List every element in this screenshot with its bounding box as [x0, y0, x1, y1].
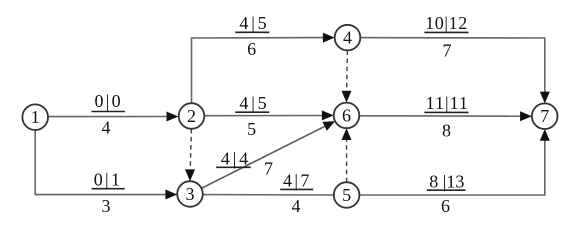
node 3	[177, 181, 203, 207]
wire 2-4	[192, 38, 324, 104]
label activity 1-2 value 0|0	[92, 91, 126, 138]
svg-text:6: 6	[441, 196, 450, 216]
arrowhead into node 6 from lower-left	[322, 121, 335, 131]
label activity 5-7 value 8|13	[427, 171, 466, 216]
svg-text:4|5: 4|5	[239, 13, 269, 33]
svg-text:8: 8	[442, 121, 451, 141]
wire 1-2	[48, 116, 168, 118]
node 1	[22, 104, 48, 130]
svg-text:4|4: 4|4	[221, 148, 251, 168]
node 5	[334, 182, 360, 208]
arrowhead into node 7 from below	[540, 129, 550, 141]
svg-text:4|7: 4|7	[283, 170, 312, 190]
svg-text:0|1: 0|1	[94, 170, 123, 190]
node 4	[335, 25, 361, 51]
svg-text:5: 5	[247, 119, 256, 139]
label activity 1-3 value 0|1	[92, 170, 125, 217]
svg-text:5: 5	[342, 185, 351, 205]
label activity 2-4 value 4|5	[235, 13, 269, 59]
wire 3-6 diagonal	[201, 125, 327, 188]
dashed wire 4-6	[346, 50, 349, 91]
svg-text:2: 2	[187, 106, 196, 126]
wire 6-7	[359, 115, 521, 117]
dashed wire 5-6	[346, 140, 348, 182]
wire 3-5	[203, 194, 334, 196]
svg-text:3: 3	[186, 184, 195, 204]
wire 5-7	[359, 140, 544, 195]
svg-text:10|12: 10|12	[425, 13, 468, 33]
svg-text:8 |13: 8 |13	[429, 171, 464, 191]
node 6	[334, 103, 360, 129]
svg-text:4: 4	[102, 118, 111, 138]
label activity 3-6 value 4|4	[216, 148, 273, 178]
dashed wire 2-3	[190, 129, 191, 171]
arrowhead into node 7 from above	[540, 92, 550, 104]
svg-text:1: 1	[31, 107, 40, 127]
label activity 4-7 value 10|12	[424, 13, 468, 61]
svg-text:4|5: 4|5	[239, 93, 269, 113]
svg-text:6: 6	[247, 39, 256, 59]
label activity 3-5 value 4|7	[280, 170, 313, 216]
arrowhead into node 6 from left	[322, 110, 334, 120]
arrowhead into node 4	[323, 33, 335, 43]
svg-text:6: 6	[342, 105, 351, 125]
wire 2-6	[204, 115, 322, 117]
node 2	[179, 103, 205, 129]
svg-text:7: 7	[540, 106, 549, 126]
arrowhead into node 6 from below	[342, 128, 352, 140]
arrowhead into node 3 from above	[185, 169, 195, 181]
svg-text:0|0: 0|0	[94, 91, 123, 111]
arrowhead into node 7 from left	[520, 111, 532, 121]
label activity 6-7 value 11|11	[424, 93, 469, 140]
svg-text:4: 4	[292, 196, 301, 216]
wire 4-7	[360, 38, 545, 93]
arrowhead into node 6 from above	[342, 91, 352, 103]
node 7	[532, 103, 558, 129]
arrowhead into node 3	[165, 190, 177, 200]
svg-text:4: 4	[343, 28, 352, 48]
svg-text:3: 3	[102, 196, 111, 216]
svg-text:7: 7	[443, 41, 452, 61]
svg-text:7: 7	[264, 159, 273, 179]
wire 1-3	[35, 130, 166, 195]
svg-text:11|11: 11|11	[426, 93, 469, 113]
arrowhead into node 2	[167, 112, 179, 122]
label activity 2-6 value 4|5	[235, 93, 269, 139]
